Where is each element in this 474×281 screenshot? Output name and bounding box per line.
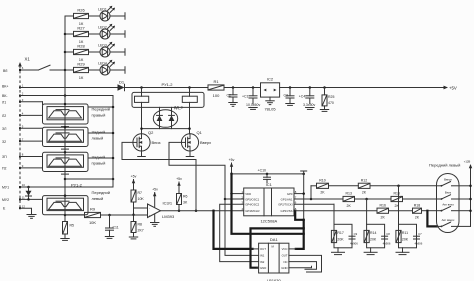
- svg-text:C8: C8: [386, 232, 390, 236]
- thick wire to stadium contact 4: [427, 211, 437, 227]
- wire IC1 pin5 row to R16: [295, 210, 377, 212]
- svg-text:IN1: IN1: [260, 254, 265, 258]
- svg-text:LED1: LED1: [98, 7, 107, 11]
- transistor Q2 (Вниз): [133, 130, 161, 151]
- speaker BA3 Задний правый: [43, 151, 106, 174]
- svg-text:+C4: +C4: [299, 95, 306, 99]
- svg-text:Л1: Л1: [2, 101, 6, 105]
- switch Вверх: [437, 177, 460, 186]
- ground under C11: [105, 237, 113, 239]
- wire pin row ground hook: [3, 206, 32, 214]
- opamp IC3/1 LM393: [148, 200, 176, 218]
- switch SA1: [39, 65, 66, 70]
- svg-text:+5v: +5v: [152, 188, 158, 192]
- wire pin row МУ1 to vertical x113: [2, 186, 113, 190]
- svg-text:R18: R18: [414, 203, 420, 207]
- svg-text:Л2: Л2: [2, 114, 6, 118]
- svg-text:R27: R27: [77, 26, 85, 31]
- ground under C2: [229, 103, 237, 107]
- resistor R10 2K: [317, 178, 359, 194]
- wire pin row +12 to speaker 1: [2, 101, 43, 105]
- svg-text:OUT: OUT: [282, 254, 288, 258]
- svg-text:LED4: LED4: [98, 61, 107, 65]
- svg-text:DA1: DA1: [270, 237, 279, 242]
- diode D1: [118, 80, 133, 91]
- svg-text:+5V: +5V: [449, 86, 457, 91]
- resistor R29 1K: [65, 62, 100, 80]
- svg-text:МУ1: МУ1: [2, 186, 9, 190]
- svg-text:РУ1-2: РУ1-2: [71, 183, 83, 188]
- svg-text:R26: R26: [77, 8, 85, 13]
- svg-text:X1: X1: [25, 57, 31, 62]
- +5v arrow above R7: [131, 175, 137, 190]
- svg-text:470: 470: [328, 101, 334, 105]
- svg-text:GP2/T0CKI: GP2/T0CKI: [278, 203, 293, 207]
- wire pin row ПЗ speaker2 bottom: [2, 140, 43, 144]
- svg-text:левый: левый: [92, 136, 104, 141]
- ground under R8: [129, 237, 137, 239]
- svg-text:Передний: Передний: [92, 190, 110, 195]
- svg-text:GP1/AN1: GP1/AN1: [281, 197, 293, 201]
- svg-text:GP5/OSC1: GP5/OSC1: [245, 197, 259, 201]
- switch Вниз: [437, 191, 460, 200]
- svg-text:3K: 3K: [183, 200, 188, 204]
- wire +12 rail of control unit: [459, 159, 472, 226]
- dual protection diode DD_3: [153, 106, 182, 129]
- svg-text:+5v: +5v: [176, 177, 182, 181]
- svg-text:2K: 2K: [347, 204, 352, 208]
- wire pin row ЛЗ speaker1 bottom: [2, 114, 43, 118]
- svg-text:10,0x50v: 10,0x50v: [246, 103, 260, 107]
- svg-text:ВК+: ВК+: [2, 85, 8, 89]
- svg-text:IC1: IC1: [266, 182, 273, 187]
- resistor R18 2K: [413, 203, 437, 219]
- wire opamp output row to IC1 pin4: [161, 209, 244, 212]
- svg-text:З2: З2: [2, 140, 6, 144]
- svg-text:1К: 1К: [79, 75, 84, 80]
- svg-text:M: M: [272, 245, 275, 249]
- svg-text:Е: Е: [3, 206, 6, 210]
- svg-text:R8: R8: [138, 223, 143, 227]
- terminator bar on +5 rail end: [301, 171, 307, 174]
- resistor R6 3K: [177, 194, 188, 212]
- thick wire to DA pin4: [251, 228, 304, 267]
- wire IC1 pin3 lead to DA pin3: [220, 204, 259, 261]
- svg-text:VCC: VCC: [282, 247, 288, 251]
- capacitor C2: [227, 88, 237, 103]
- svg-text:R1: R1: [213, 79, 219, 84]
- svg-text:ВК-: ВК-: [2, 94, 8, 98]
- thick wire IC1 pin5 jog: [295, 211, 304, 220]
- svg-text:МУ2: МУ2: [2, 198, 9, 202]
- svg-text:11: 11: [22, 196, 25, 200]
- wire IC1 pin6 to RC group 1: [294, 204, 334, 224]
- wire IC1 pin7 row: [294, 186, 343, 200]
- svg-text:C9: C9: [354, 232, 358, 236]
- svg-text:10K: 10K: [138, 197, 145, 201]
- svg-text:10K: 10K: [89, 220, 96, 225]
- resistor R9 10K: [65, 206, 148, 225]
- svg-text:правый: правый: [92, 112, 106, 117]
- +5v arrow above R6: [176, 177, 182, 193]
- svg-text:Задний: Задний: [92, 155, 106, 160]
- svg-text:R14: R14: [370, 231, 376, 235]
- control unit stadium (Передний левый): [429, 162, 460, 232]
- svg-text:OUT: OUT: [260, 247, 266, 251]
- svg-text:R6: R6: [183, 194, 188, 198]
- capacitor C10: [258, 168, 271, 182]
- voltage regulator IC2 78L05: [261, 77, 280, 112]
- +5v arrow for opamp supply: [152, 188, 158, 207]
- svg-text:LED3: LED3: [98, 43, 107, 47]
- svg-text:IN2: IN2: [260, 260, 265, 264]
- ground under C1: [249, 108, 257, 110]
- svg-text:правый: правый: [92, 161, 106, 166]
- switch Авт вниз: [437, 202, 460, 211]
- svg-text:12C508A: 12C508A: [260, 219, 277, 224]
- resistor R28 1K: [65, 44, 100, 62]
- svg-text:R12: R12: [361, 178, 367, 182]
- wire IC1 pin2 lead: [225, 198, 244, 200]
- +5v arrow feeding IC1/DA: [229, 158, 235, 174]
- svg-text:2K: 2K: [320, 191, 325, 195]
- svg-text:LED2: LED2: [98, 25, 107, 29]
- svg-text:78L05: 78L05: [264, 107, 276, 112]
- speaker BA4 Передний левый: [43, 190, 110, 215]
- ground under C3: [286, 104, 294, 106]
- svg-text:+C10: +C10: [258, 168, 267, 172]
- wire LED bus x65: [64, 16, 67, 222]
- svg-text:C11: C11: [113, 225, 119, 229]
- svg-text:GP4/OSC2: GP4/OSC2: [245, 203, 259, 207]
- svg-text:4n906: 4n906: [415, 242, 423, 246]
- resistor R12 2K: [358, 178, 436, 194]
- svg-text:20K: 20K: [337, 237, 344, 241]
- wire RC group 3 riser: [398, 186, 400, 225]
- ground under R5: [61, 239, 69, 241]
- speaker BA1 Передний правый: [43, 103, 110, 127]
- svg-text:R13: R13: [345, 192, 351, 196]
- svg-text:IC2: IC2: [267, 77, 274, 82]
- relay K1 (РУ1-2): [132, 82, 204, 107]
- wire Q1 source terminator: [186, 151, 194, 157]
- svg-text:20K: 20K: [370, 237, 377, 241]
- wire pin row ВК- common: [2, 94, 113, 98]
- svg-text:GP3/MCLR: GP3/MCLR: [245, 209, 259, 213]
- resistor R1 100: [208, 79, 224, 98]
- svg-text:+5v: +5v: [131, 175, 137, 179]
- svg-text:20K: 20K: [402, 237, 409, 241]
- ground under R25: [320, 110, 328, 112]
- RC group R11/C7: [396, 224, 423, 252]
- svg-text:П2: П2: [2, 167, 7, 171]
- wire +5 vertical to IC1 pin8: [294, 174, 305, 220]
- capacitor C3: [284, 88, 294, 104]
- svg-text:GP3/VSS: GP3/VSS: [281, 209, 293, 213]
- svg-text:R7: R7: [138, 191, 143, 195]
- svg-text:GND: GND: [260, 266, 266, 270]
- resistor R8 2K7: [131, 222, 144, 238]
- resistor R7 10K: [131, 190, 144, 222]
- transistor Q1 (Вверх): [181, 130, 211, 151]
- svg-text:4n906: 4n906: [383, 242, 391, 246]
- RC group R14/C8: [364, 224, 391, 252]
- svg-text:Авт вверх: Авт вверх: [442, 218, 455, 222]
- wire R7/R8 node to opamp minus input: [132, 208, 147, 216]
- svg-text:2K: 2K: [362, 191, 367, 195]
- svg-text:3,3x50v: 3,3x50v: [303, 103, 316, 107]
- capacitor C1 10,0x50v polarized: [242, 88, 260, 107]
- svg-text:IC3/1: IC3/1: [163, 200, 173, 205]
- svg-text:Q2: Q2: [148, 130, 154, 135]
- svg-text:R29: R29: [77, 62, 85, 67]
- svg-text:+C1: +C1: [242, 95, 249, 99]
- wire pin row 1 (Вб) with labels: [3, 69, 39, 73]
- svg-text:R17: R17: [337, 231, 343, 235]
- svg-text:NC: NC: [283, 260, 287, 264]
- wire pin row ПП speaker3 top: [2, 155, 43, 159]
- svg-text:100: 100: [213, 93, 220, 98]
- wire pin row МУ2 speaker4: [2, 198, 43, 202]
- svg-text:4n906: 4n906: [350, 242, 358, 246]
- svg-text:Авт вниз: Авт вниз: [442, 202, 454, 206]
- svg-text:ДД_3: ДД_3: [174, 106, 183, 110]
- svg-text:2K7: 2K7: [138, 229, 144, 233]
- ground under group 3: [396, 252, 409, 254]
- wire DA right pin wrap bundle: [289, 255, 322, 272]
- svg-text:ЗЛ: ЗЛ: [2, 127, 7, 131]
- svg-text:R11: R11: [402, 231, 408, 235]
- +12/+5 rail right of R1: [224, 86, 457, 91]
- wire Q1 gate to IC1 pin2 / DA pin2: [169, 142, 259, 255]
- svg-text:2K: 2K: [381, 216, 386, 220]
- wire speaker common vertical x113: [88, 96, 114, 188]
- svg-text:Вверх: Вверх: [200, 140, 211, 145]
- svg-text:12: 12: [22, 204, 26, 208]
- ground under group 2: [364, 252, 377, 254]
- wire Q2 gate to opamp output node: [122, 142, 197, 212]
- svg-text:VDD: VDD: [245, 192, 251, 196]
- svg-text:10: 10: [22, 183, 26, 187]
- LED LED3: [98, 42, 125, 57]
- svg-text:Передний левый: Передний левый: [429, 162, 460, 167]
- resistor R16 2K: [377, 203, 413, 219]
- capacitor C4 3,3x50v polarized: [299, 88, 316, 107]
- svg-text:-: -: [149, 207, 150, 211]
- svg-text:РУ1-2: РУ1-2: [162, 82, 174, 87]
- wire IC1 pin1 VDD to +5 vertical: [230, 192, 243, 195]
- wire Q2 source terminator: [138, 151, 146, 157]
- wire pin row ВК+ to diode D1: [2, 85, 118, 89]
- svg-text:C7: C7: [418, 232, 422, 236]
- svg-text:+12В: +12В: [464, 159, 471, 163]
- LED LED2: [98, 24, 125, 39]
- wire RC group 2 riser: [366, 199, 368, 224]
- diode VD1 small (between МУ1 and МУ2 rows): [26, 187, 32, 199]
- svg-text:R9: R9: [90, 206, 96, 211]
- svg-text:ЗП: ЗП: [2, 155, 7, 159]
- wire pin row ЛП speaker2 top: [2, 127, 43, 131]
- ground under opamp: [151, 214, 159, 226]
- svg-text:Q1: Q1: [197, 130, 203, 135]
- svg-text:D1: D1: [119, 80, 125, 85]
- ground under group 1: [332, 252, 345, 254]
- capacitor C11: [106, 215, 119, 237]
- svg-text:Вб: Вб: [3, 69, 7, 73]
- ground under IC2: [266, 101, 274, 105]
- LED LED1: [98, 6, 125, 21]
- resistor R13 2K: [343, 192, 391, 208]
- RC group R17/C9 (20K, 4n906): [331, 224, 358, 252]
- LED LED4: [98, 60, 125, 75]
- resistor R26 1K: [65, 8, 100, 26]
- wire relay coils to MOSFET drains: [140, 102, 191, 133]
- +5 rail to IC1 area: [230, 173, 305, 176]
- ground under C4: [306, 108, 314, 110]
- resistor R25 470: [322, 88, 334, 110]
- svg-text:R25: R25: [328, 95, 334, 99]
- thick wire T1 opamp node to DA pin1: [214, 211, 259, 249]
- switch Авт вверх: [437, 218, 459, 227]
- svg-text:GP0: GP0: [287, 192, 293, 196]
- speaker BA2 Задний левый: [43, 126, 106, 149]
- resistor R5: [63, 222, 75, 239]
- svg-text:R5: R5: [70, 223, 75, 227]
- svg-text:GND: GND: [281, 266, 287, 270]
- wire pin row УК speaker3 bottom: [2, 167, 43, 171]
- svg-text:Вниз: Вниз: [445, 191, 452, 195]
- connector X1 dashed body: [18, 57, 30, 211]
- svg-text:Вверх: Вверх: [444, 177, 452, 181]
- motor driver DA LB1630: [259, 237, 289, 281]
- svg-text:+5v: +5v: [229, 158, 235, 162]
- svg-text:2K: 2K: [415, 216, 420, 220]
- wire bus tap to common y179: [65, 178, 113, 180]
- svg-text:R16: R16: [379, 203, 385, 207]
- svg-text:R10: R10: [319, 178, 325, 182]
- ground (connector pin): [27, 215, 36, 219]
- svg-text:Вниз: Вниз: [152, 140, 161, 145]
- svg-text:R28: R28: [77, 44, 85, 49]
- +12 rail from D1 to R1: [132, 86, 208, 89]
- svg-text:LM393: LM393: [162, 214, 175, 219]
- resistor R27 1K: [65, 26, 100, 44]
- resistor R15 2K: [391, 192, 437, 208]
- IC1 12C508A: [241, 182, 296, 223]
- connector pin numbers: [22, 66, 26, 208]
- svg-text:Задний: Задний: [92, 130, 106, 135]
- thick wire +5 to DA pin8 (VCC): [232, 174, 304, 249]
- svg-text:левый: левый: [92, 196, 104, 201]
